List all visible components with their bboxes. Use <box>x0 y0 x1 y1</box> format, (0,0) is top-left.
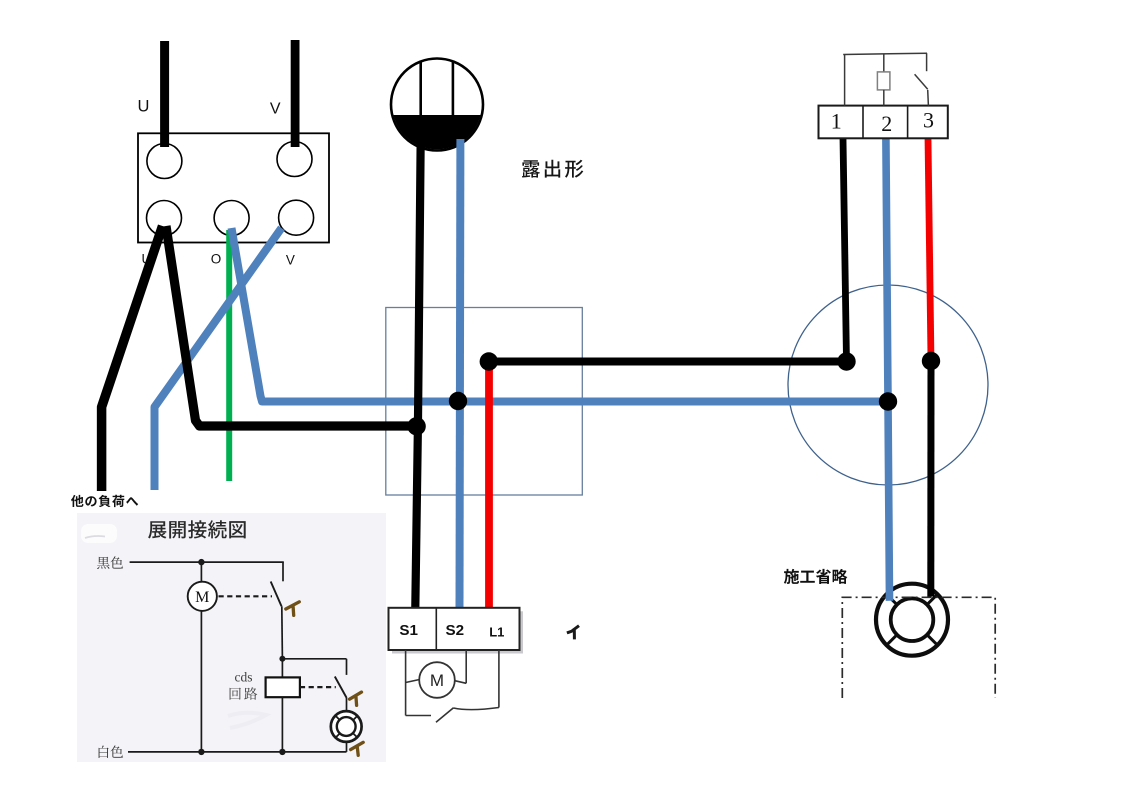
internal wire terminal2 lower <box>883 90 885 106</box>
schematic lamp spoke NE <box>353 716 357 720</box>
schematic dashed link motor-switch <box>219 595 273 597</box>
S1S2L1 terminal box <box>389 608 520 650</box>
terminal circle top V <box>277 142 312 177</box>
svg-text:O: O <box>211 252 222 267</box>
S1S2L1 divider <box>435 608 437 650</box>
internal wire terminal3 lower <box>927 90 930 106</box>
internal top conductor <box>843 53 927 54</box>
ceiling lamp spoke NE <box>928 595 937 604</box>
motor wire to L1 vertical <box>498 650 500 708</box>
ceiling lamp spoke NW <box>888 595 897 604</box>
wire middle vertical blue lamp to S2 <box>456 139 465 608</box>
ceiling lamp spoke SW <box>888 635 897 644</box>
motor circle <box>419 662 455 698</box>
svg-text:U: U <box>138 98 150 116</box>
svg-text:1: 1 <box>831 109 842 134</box>
ceiling lamp spoke SE <box>928 635 937 644</box>
schematic motor circle <box>188 582 217 611</box>
schematic lamp switch blade <box>335 677 347 699</box>
text kairo (circuit) <box>230 687 258 700</box>
schematic branch node <box>279 656 285 662</box>
lamp receptacle filled base <box>390 115 484 155</box>
text tano-fuka-e (to other loads) <box>71 495 138 507</box>
switch mark i (brown) 3 <box>351 742 364 755</box>
svg-text:3: 3 <box>923 107 934 132</box>
wire source V black <box>291 40 300 147</box>
wire blue terminal2 down to lamp <box>886 139 890 601</box>
schematic switch lower lead <box>281 606 284 659</box>
ceiling lamp outer circle <box>876 584 948 656</box>
svg-text:2: 2 <box>881 111 892 136</box>
lamp receptacle inner line right <box>452 62 455 118</box>
motor right link <box>455 681 466 684</box>
junction dot red-black lamp <box>922 352 940 370</box>
lamp receptacle inner line left <box>419 62 422 118</box>
schematic motor upper lead <box>200 562 202 582</box>
schematic lamp spoke SW <box>336 733 340 737</box>
schematic lamp spoke NW <box>336 716 340 720</box>
text rosyutsu-kei (exposed type) <box>522 160 583 178</box>
wire black terminal1 down <box>843 139 847 362</box>
svg-text:S2: S2 <box>446 622 465 639</box>
S1S2L1 box shadow <box>392 611 523 653</box>
terminal circle bottom U <box>147 201 182 236</box>
internal switch blade <box>915 74 928 89</box>
junction dot black middle <box>407 417 425 435</box>
wire red terminal3 down <box>928 139 931 362</box>
schematic cds upper lead <box>281 659 283 678</box>
lamp receptacle body <box>391 59 483 151</box>
motor bottom wire <box>406 715 431 717</box>
terminal circle top U <box>147 144 182 179</box>
wire blue V to other loads <box>155 228 282 490</box>
motor circuit left wire <box>405 650 407 716</box>
terminal divider 2|3 <box>907 106 909 139</box>
internal wire terminal3 upper <box>926 53 928 71</box>
svg-text:V: V <box>286 253 295 268</box>
schematic lamp lower lead <box>346 742 348 752</box>
wire red L1 vertical <box>485 362 493 608</box>
wire earth green from O <box>226 230 232 481</box>
junction dot red-black top <box>480 352 498 370</box>
schematic switch blade <box>271 582 282 607</box>
text tenkai-setsuzoku-zu (expanded diagram) <box>148 520 246 538</box>
svg-text:cds: cds <box>235 670 253 685</box>
dashed omitted-work box <box>842 597 995 698</box>
schematic node bottom left <box>198 749 204 755</box>
internal wire terminal1 <box>844 55 846 106</box>
schematic lamp upper lead <box>346 698 348 712</box>
schematic node bottom mid <box>279 749 285 755</box>
text kuro-iro (black) <box>97 556 123 569</box>
motor terminal block <box>138 133 329 242</box>
schematic cds lower lead <box>281 697 283 752</box>
wire middle vertical black lamp to S1 <box>415 137 420 608</box>
svg-text:S1: S1 <box>399 622 418 639</box>
schematic top wire (black conductor) <box>130 561 284 563</box>
terminal circle bottom V <box>279 200 314 235</box>
schematic lamp spoke SE <box>353 733 357 737</box>
internal wire terminal2 upper <box>883 54 885 72</box>
svg-text:M: M <box>430 671 444 690</box>
cds element rectangle <box>877 72 890 90</box>
terminal circle bottom O <box>214 201 249 236</box>
wire black U to junction box <box>166 226 416 426</box>
junction dot blue right <box>879 392 897 410</box>
switch mark i (brown) 2 <box>350 692 362 705</box>
wire source U black <box>160 41 169 147</box>
motor wire to S2 <box>465 650 467 683</box>
text sekou-shouryaku (installation omitted) <box>784 569 848 584</box>
wire neutral blue O to junction boxes <box>232 228 889 402</box>
schematic dashed link cds-switch <box>300 686 336 688</box>
junction dot blue middle <box>449 392 467 410</box>
schematic motor lower lead <box>200 611 202 752</box>
erased smudge <box>81 524 117 543</box>
junction box outline <box>386 308 583 496</box>
schematic bottom wire (white conductor) <box>128 751 347 753</box>
schematic lamp branch upper lead <box>346 659 348 675</box>
motor wire to L1 horizontal <box>454 708 499 710</box>
svg-text:L1: L1 <box>489 624 504 639</box>
switch mark i (brown) 1 <box>286 602 300 616</box>
text shiro-iro (white) <box>99 746 124 759</box>
eraser smudge left of lamp <box>228 713 266 728</box>
terminal divider 1|2 <box>862 106 864 139</box>
motor switch blade <box>436 708 454 723</box>
svg-text:V: V <box>270 101 281 118</box>
ceiling lamp inner circle <box>891 598 934 641</box>
schematic branch wire <box>282 658 346 660</box>
junction dot black right <box>837 352 855 370</box>
schematic lamp outer circle <box>331 711 362 742</box>
wire black U to other loads <box>102 226 163 491</box>
wire black top horizontal to switch circle <box>489 358 847 366</box>
motor left link <box>406 680 420 683</box>
automatic switch terminal box <box>819 106 948 139</box>
schematic switch upper lead <box>282 562 284 581</box>
outlet box circle <box>788 285 988 485</box>
text katakana-i switch id <box>568 627 578 638</box>
schematic node top <box>198 559 204 565</box>
schematic panel background <box>77 513 386 762</box>
svg-text:M: M <box>195 589 209 606</box>
schematic lamp inner circle <box>337 717 356 736</box>
wire black down to lamp <box>927 361 934 597</box>
schematic cds box <box>266 677 300 697</box>
